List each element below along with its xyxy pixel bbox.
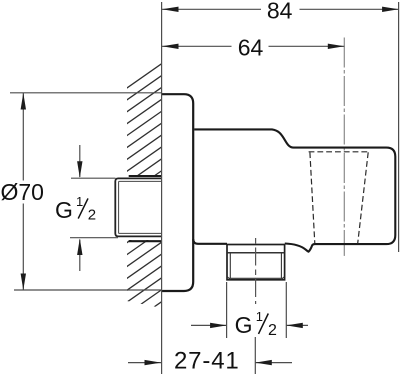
svg-text:1: 1 — [256, 309, 263, 324]
svg-text:Ø70: Ø70 — [0, 179, 43, 205]
svg-text:G: G — [55, 197, 73, 223]
svg-text:2: 2 — [268, 322, 277, 339]
svg-text:64: 64 — [238, 35, 264, 61]
svg-text:84: 84 — [267, 0, 293, 23]
svg-text:2: 2 — [88, 207, 96, 224]
svg-text:G: G — [235, 312, 253, 338]
svg-text:1: 1 — [76, 194, 83, 209]
svg-text:27-41: 27-41 — [174, 348, 240, 374]
